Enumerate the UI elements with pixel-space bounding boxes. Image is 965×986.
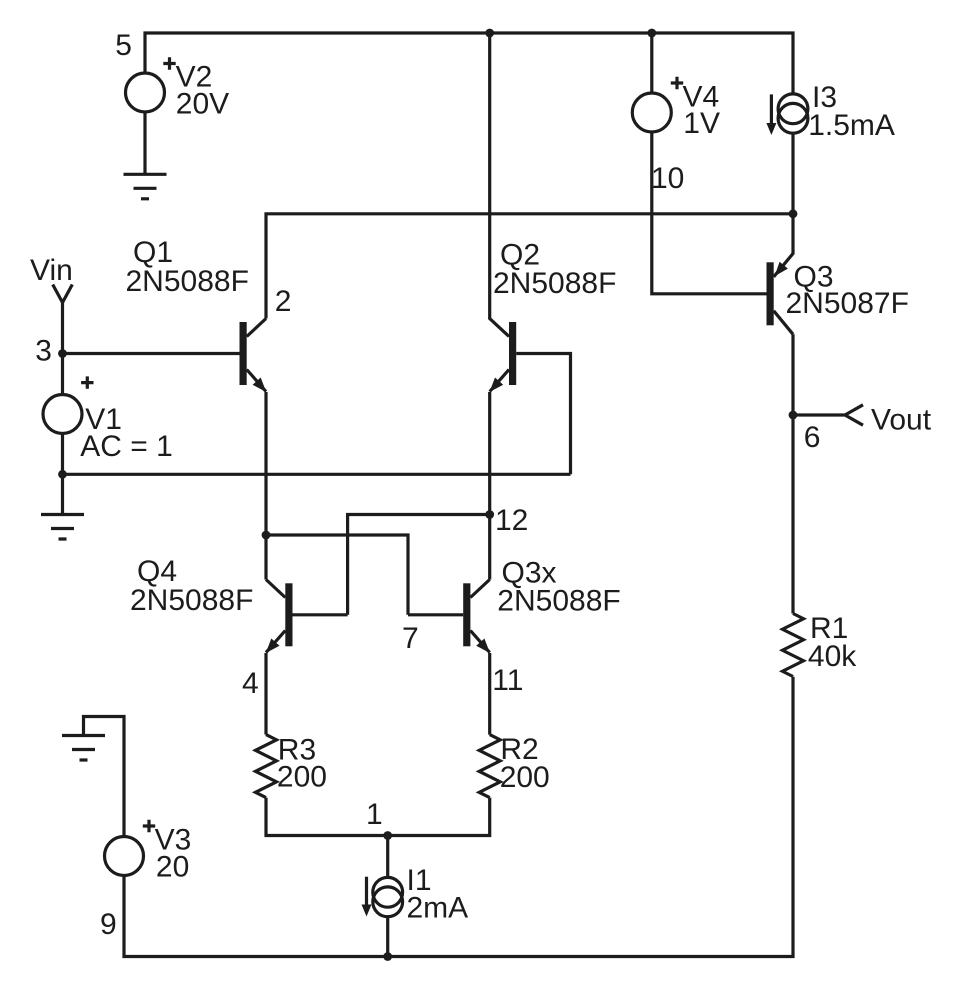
wire Q1 emitter down to node 7 junction <box>264 392 267 580</box>
junction node 12 <box>485 510 494 519</box>
svg-text:AC = 1: AC = 1 <box>80 430 173 463</box>
V2 plus sign <box>163 57 175 69</box>
svg-text:5: 5 <box>115 29 132 62</box>
wire Q3x emitter to R2 <box>488 653 491 735</box>
svg-text:6: 6 <box>804 421 821 454</box>
wire Q1 collector to Q3 emitter node <box>266 214 793 319</box>
svg-text:Vin: Vin <box>30 254 73 287</box>
svg-text:1: 1 <box>366 798 383 831</box>
junction I1 bottom rail <box>383 952 392 961</box>
voltage source V4 <box>632 93 671 132</box>
wire Q4 emitter to R3 <box>264 653 267 735</box>
svg-text:10: 10 <box>651 162 684 195</box>
ground above V3 <box>84 717 125 837</box>
svg-text:2mA: 2mA <box>407 891 469 924</box>
svg-text:Vout: Vout <box>871 404 932 437</box>
wire V4 bottom to Q3 base (node 10) <box>652 132 767 294</box>
wire node 1 <box>266 798 490 836</box>
voltage source V2 <box>126 73 165 112</box>
Vout arrow <box>845 405 863 425</box>
junction I3 / Q3 emitter <box>789 209 798 218</box>
V4 plus sign <box>671 77 683 89</box>
wire Vin to V1 <box>61 303 64 395</box>
svg-text:7: 7 <box>402 622 419 655</box>
V3 plus sign <box>143 820 155 832</box>
svg-text:2N5088F: 2N5088F <box>493 267 616 300</box>
wire Q3 collector down right rail <box>791 334 794 613</box>
junction V1 ground wire <box>58 470 67 479</box>
resistor R2 200 <box>479 735 500 798</box>
svg-text:2N5088F: 2N5088F <box>497 585 620 618</box>
V1 plus sign <box>81 376 93 388</box>
I1 arrow <box>365 877 368 907</box>
ground below V2 <box>124 174 167 199</box>
wire node 12 to Q4 base <box>293 515 490 615</box>
transistor Q2 2N5088F <box>490 33 517 392</box>
resistor R3 200 <box>256 735 277 798</box>
wire V1 to ground <box>61 434 64 515</box>
svg-text:11: 11 <box>492 664 523 697</box>
ground below V1 <box>41 515 84 540</box>
svg-text:1V: 1V <box>683 107 720 140</box>
junction node 1 <box>383 831 392 840</box>
junction Vout node 6 <box>789 411 798 420</box>
Vin arrow <box>53 285 73 303</box>
wire node 1 to I1 <box>386 836 389 879</box>
svg-text:3: 3 <box>35 335 52 368</box>
transistor Q1 2N5088F <box>240 319 267 393</box>
wire Vout stub <box>793 413 845 416</box>
svg-text:1.5mA: 1.5mA <box>808 109 895 142</box>
wire top rail node 5 <box>145 33 793 94</box>
svg-text:9: 9 <box>100 908 117 941</box>
wire Q2 emitter to node 12 <box>488 392 491 580</box>
wire bottom rail node 9 <box>124 677 793 957</box>
junction node 5 / Q2 collector <box>485 29 494 38</box>
svg-text:200: 200 <box>500 761 550 794</box>
transistor Q3 2N5087F <box>767 214 794 334</box>
wire I1 to bottom rail <box>386 916 389 956</box>
voltage source V3 <box>105 837 144 876</box>
svg-text:20V: 20V <box>176 88 229 121</box>
wire cross-couple to Q3x base (node 7) <box>266 535 463 615</box>
wire Q2 base riser to ground net <box>516 354 570 475</box>
wire V2 to ground <box>143 112 146 174</box>
voltage source V1 <box>43 395 82 434</box>
svg-text:20: 20 <box>156 850 189 883</box>
svg-text:12: 12 <box>495 504 528 537</box>
wire I3 to node <box>791 134 794 214</box>
wire V4 top stem <box>650 33 653 93</box>
svg-text:2N5088F: 2N5088F <box>130 584 253 617</box>
svg-text:200: 200 <box>277 761 327 794</box>
resistor R1 40k <box>783 614 804 677</box>
svg-text:2N5087F: 2N5087F <box>786 287 909 320</box>
transistor Q4 2N5088F <box>266 580 293 654</box>
wire Q1 base <box>63 352 240 355</box>
current source I1 <box>373 877 403 907</box>
junction node 5 / V4 <box>647 29 656 38</box>
junction node 3 <box>58 349 67 358</box>
svg-text:2N5088F: 2N5088F <box>126 265 249 298</box>
transistor Q3x 2N5088F <box>463 580 490 654</box>
current source I3 <box>778 94 808 124</box>
junction Q1 emitter / Q4 collector <box>262 531 271 540</box>
I3 arrow <box>770 94 773 125</box>
svg-text:40k: 40k <box>808 640 857 673</box>
wire ground net to Q2 base riser <box>63 473 571 476</box>
svg-text:4: 4 <box>242 667 259 700</box>
svg-text:2: 2 <box>275 285 292 318</box>
